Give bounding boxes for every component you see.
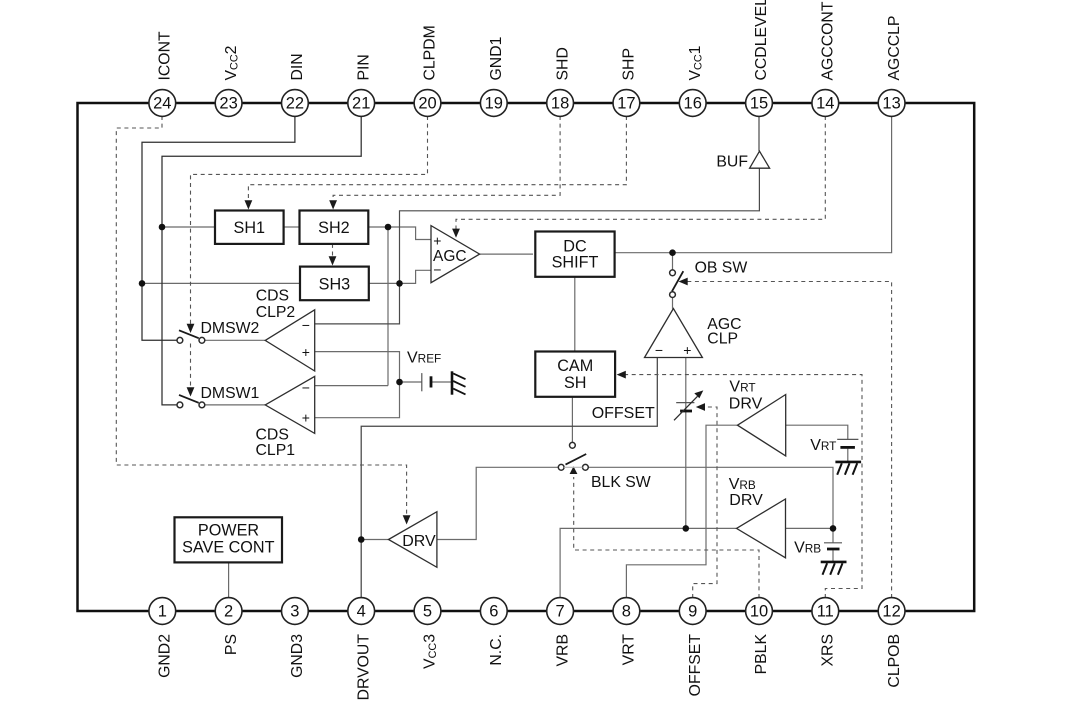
wire VRT DRV output to VRT capacitor (786, 425, 848, 439)
pin 2 PS (bottom) (215, 598, 242, 655)
block SH1 (215, 211, 284, 244)
wire AGC output to DC SHIFT (480, 253, 533, 255)
pin 12 CLPOB (bottom) (878, 598, 905, 688)
svg-text:OFFSET: OFFSET (687, 634, 704, 697)
pin 8 VRT (bottom) (613, 598, 640, 666)
dashed net PBLK: pin10 to BLK SW control (574, 477, 759, 598)
wire POWER SAVE CONT to pin2 PS (228, 563, 230, 598)
pin 16 VCC1 (top) (679, 45, 706, 116)
svg-text:VRB: VRB (729, 476, 756, 493)
variable capacitor OFFSET adjust (676, 402, 694, 404)
dashed link SH2 to SH3 clock (332, 244, 334, 257)
comparator CDS CLP1 (265, 376, 315, 433)
dashed net CLPDM continued to DMSW1 control (190, 344, 192, 389)
svg-text:GND3: GND3 (289, 634, 306, 678)
pin 17 SHP (top) (613, 48, 640, 116)
wire SH2 output step into AGC + input (368, 227, 431, 240)
svg-text:VRB: VRB (554, 634, 571, 666)
wire DRV output to DRVOUT rail (361, 539, 388, 541)
wire DIN net: pin22 down-left rail to SH3 input and DMSW2 left contact (142, 116, 295, 340)
wire BLK SW right contact to VRB rail (589, 467, 834, 543)
wire VRB DRV input (786, 527, 834, 529)
svg-text:GND2: GND2 (157, 634, 174, 678)
pin 11 XRS (bottom) (812, 598, 839, 667)
svg-text:CLP1: CLP1 (256, 442, 296, 459)
svg-text:10: 10 (750, 603, 768, 621)
svg-text:SHP: SHP (621, 48, 638, 80)
svg-text:GND1: GND1 (488, 36, 505, 80)
ground at VREF capacitor (451, 371, 454, 394)
wire OB SW bottom contact to AGC CLP apex (672, 298, 674, 309)
wire DMSW1 right contact to CDS CLP1 apex (205, 404, 265, 406)
svg-text:DIN: DIN (289, 53, 306, 80)
dashed net CLPOB: pin12 to OB SW control (687, 282, 892, 599)
switch DMSW2 (177, 337, 183, 343)
wire SH2 output vertical down to CDS CLP1 - input (387, 227, 389, 386)
dashed net OFFSET: pin9 to offset adjust arrow (693, 407, 717, 598)
svg-text:−: − (302, 380, 310, 396)
pin 19 GND1 (top) (480, 36, 507, 116)
svg-text:VRT: VRT (810, 437, 836, 454)
capacitor VRB (824, 542, 842, 544)
wire CDS CLP1 - input (315, 385, 388, 387)
capacitor VRT (837, 438, 858, 440)
arrowhead AGCCONT into AGC (452, 229, 460, 238)
node junction PIN/SH1 (159, 224, 166, 231)
svg-text:DMSW2: DMSW2 (201, 320, 260, 337)
block DC SHIFT (535, 232, 614, 277)
wire PIN net: pin21 down-left rail to SH1 input and DMSW1 left contact (162, 116, 361, 405)
arrowhead ICONT into DRV (403, 515, 411, 524)
svg-text:12: 12 (882, 603, 900, 621)
wire CCDLEVEL rail: BUF output left along top then down to CDS CLP2 - input (315, 168, 760, 324)
svg-text:23: 23 (219, 95, 237, 113)
svg-text:14: 14 (816, 95, 834, 113)
svg-text:13: 13 (882, 95, 900, 113)
pin 4 DRVOUT (bottom) (348, 598, 375, 701)
pin 18 SHD (top) (547, 47, 574, 116)
op-amp AGC (431, 226, 480, 283)
dashed net SHP: pin17 to SH1 clock (248, 116, 626, 201)
pin 24 ICONT (top) (149, 31, 176, 116)
svg-text:VRT: VRT (729, 379, 755, 396)
block SH3 (300, 267, 369, 301)
node junction VREF (396, 379, 403, 386)
pin 7 VRB (bottom) (547, 598, 574, 667)
svg-text:VRB: VRB (794, 539, 821, 556)
arrowhead SHP into SH1 (245, 200, 253, 209)
block CAM SH (535, 352, 615, 397)
svg-text:+: + (433, 233, 441, 249)
amp VRT DRV (738, 395, 786, 456)
node junction AGC CLP+/VRB (683, 525, 690, 532)
arrowhead XRS into CAM SH (617, 371, 626, 379)
switch BLK SW with throw contact from CAM SH (570, 442, 576, 448)
wire PIN branch into SH1 input (162, 226, 215, 228)
pin 21 PIN (top) (348, 54, 375, 116)
svg-text:8: 8 (622, 603, 631, 621)
node junction OB SW tap (669, 249, 676, 256)
wire SH3 output step into AGC - input (369, 270, 431, 283)
svg-text:SHD: SHD (554, 47, 571, 80)
svg-text:DRV: DRV (402, 533, 436, 550)
node junction SH2 out (385, 224, 392, 231)
pin 1 GND2 (bottom) (149, 598, 176, 678)
node junction DRVOUT (358, 536, 365, 543)
svg-text:AGCCLP: AGCCLP (886, 16, 903, 81)
arrowhead CLPDM onto DMSW1 (187, 387, 195, 396)
pin 13 AGCCLP (top) (878, 16, 905, 117)
svg-text:SH2: SH2 (318, 219, 350, 237)
svg-text:AGCCONT: AGCCONT (820, 1, 837, 80)
pin 23 VCC2 (top) (215, 46, 242, 117)
svg-text:21: 21 (352, 95, 370, 113)
svg-text:DMSW1: DMSW1 (201, 385, 260, 402)
svg-text:DRVOUT: DRVOUT (355, 634, 372, 701)
pin 10 PBLK (bottom) (746, 598, 773, 675)
dashed net ICONT: pin24 to DRV bias arrow (116, 116, 406, 515)
svg-text:−: − (655, 342, 663, 358)
node junction VRB cap (830, 525, 837, 532)
svg-text:9: 9 (688, 603, 697, 621)
svg-text:CCDLEVEL: CCDLEVEL (753, 0, 770, 81)
svg-text:VCC3: VCC3 (422, 634, 440, 669)
pin 6 N.C. (bottom) (480, 598, 507, 666)
svg-text:SH1: SH1 (234, 219, 266, 237)
amp VRB DRV (737, 499, 786, 558)
svg-text:VCC2: VCC2 (223, 46, 241, 81)
svg-text:+: + (683, 342, 691, 358)
svg-text:DRV: DRV (729, 492, 763, 509)
svg-text:22: 22 (286, 95, 304, 113)
svg-text:XRS: XRS (820, 634, 837, 666)
comparator CDS CLP2 (265, 310, 315, 371)
svg-text:PBLK: PBLK (753, 634, 770, 675)
wire AGC CLP - input down then left to DRVOUT rail and pin4 (361, 358, 657, 599)
svg-text:PIN: PIN (355, 54, 372, 80)
svg-text:ICONT: ICONT (157, 31, 174, 80)
svg-text:4: 4 (357, 603, 366, 621)
wire AGC CLP + input vertical through offset capacitor to VRB node (685, 358, 687, 529)
svg-text:OB SW: OB SW (695, 260, 748, 277)
svg-text:BUF: BUF (716, 153, 748, 170)
pin 9 OFFSET (bottom) (679, 598, 706, 697)
pin 22 DIN (top) (282, 53, 309, 116)
svg-text:1: 1 (158, 603, 167, 621)
node junction DIN/SH3 (139, 280, 146, 287)
svg-text:19: 19 (485, 95, 503, 113)
wire CDS CLP2 + input down VREF rail to CDS CLP1 + input (315, 352, 400, 418)
svg-text:VRT: VRT (621, 634, 638, 666)
arrowhead SHD into SH2 (329, 200, 337, 209)
arrowhead into SH3 (329, 256, 337, 265)
svg-text:POWER: POWER (198, 522, 259, 540)
svg-text:SHIFT: SHIFT (552, 253, 599, 271)
wire VRT DRV input down-left to pin8 VRT (626, 425, 737, 598)
svg-text:17: 17 (617, 95, 635, 113)
svg-text:15: 15 (750, 95, 768, 113)
dashed net CLPDM: pin20 to DMSW2 control (191, 116, 428, 325)
svg-text:16: 16 (684, 95, 702, 113)
svg-text:CDS: CDS (256, 427, 289, 444)
arrowhead CLPDM onto DMSW2 (187, 324, 195, 333)
capacitor VREF (421, 373, 423, 391)
amp DRV (389, 512, 437, 568)
pin 14 AGCCONT (top) (812, 1, 839, 116)
svg-text:−: − (302, 317, 310, 333)
dashed net AGCCONT: pin14 to AGC gain control (456, 116, 825, 229)
svg-text:SAVE CONT: SAVE CONT (182, 539, 274, 557)
svg-text:6: 6 (489, 603, 498, 621)
svg-text:24: 24 (153, 95, 171, 113)
svg-text:CDS: CDS (256, 287, 289, 304)
node junction SH3 out (396, 280, 403, 287)
pin 3 GND3 (bottom) (282, 598, 309, 678)
wire CAM SH bottom to BLK SW throw contact (571, 397, 573, 442)
svg-text:20: 20 (418, 95, 436, 113)
svg-text:SH3: SH3 (319, 275, 351, 293)
wire DMSW2 right contact to CDS CLP2 apex (205, 339, 265, 341)
wire VRB DRV output left to pin7 VRB (560, 528, 736, 598)
ground at VRB capacitor (821, 561, 847, 564)
wire VRT capacitor to ground (847, 449, 849, 462)
svg-text:BLK SW: BLK SW (591, 474, 651, 491)
wire VRB capacitor to ground (832, 550, 834, 562)
svg-text:DRV: DRV (729, 396, 763, 413)
svg-text:OFFSET: OFFSET (592, 405, 655, 422)
arrowhead OFFSET onto offset capacitor (696, 403, 705, 411)
wire DIN branch into SH3 input (142, 282, 300, 284)
svg-text:5: 5 (423, 603, 432, 621)
wire OB SW top contact stub (672, 253, 674, 270)
dashed net XRS: pin11 to CAM SH control (625, 375, 862, 598)
svg-text:SH: SH (564, 374, 587, 392)
svg-text:CAM: CAM (557, 357, 593, 375)
wire DRV input to BLK SW left contact (437, 467, 558, 539)
svg-text:VREF: VREF (407, 349, 441, 366)
buffer amp BUF (750, 151, 770, 168)
op-amp AGC CLP (645, 309, 703, 358)
arrowhead PBLK onto BLK SW (570, 466, 578, 474)
pin 20 CLPDM (top) (414, 25, 441, 116)
svg-text:+: + (302, 344, 310, 360)
svg-text:VCC1: VCC1 (687, 45, 705, 80)
svg-text:CLPDM: CLPDM (422, 25, 439, 80)
svg-text:PS: PS (223, 634, 240, 655)
svg-text:18: 18 (551, 95, 569, 113)
svg-text:+: + (302, 409, 310, 425)
pin 15 CCDLEVEL (top) (746, 0, 773, 116)
dashed net SHD: pin18 to SH2 clock (333, 116, 560, 201)
wire DC SHIFT output to pin13 AGCCLP with OB SW tap (615, 116, 892, 253)
block SH2 (300, 211, 369, 244)
svg-text:3: 3 (290, 603, 299, 621)
wire pin15 CCDLEVEL into BUF (758, 116, 760, 151)
arrowhead CLPOB onto OB SW (679, 278, 688, 286)
block POWER SAVE CONT (175, 517, 283, 562)
svg-text:7: 7 (556, 603, 565, 621)
svg-text:N.C.: N.C. (488, 634, 505, 666)
svg-text:CLP: CLP (707, 331, 738, 348)
switch DMSW1 (177, 402, 183, 408)
svg-text:2: 2 (224, 603, 233, 621)
wire DC SHIFT to CAM SH (574, 277, 576, 352)
wire VREF tap to capacitor (400, 381, 422, 383)
svg-text:CLP2: CLP2 (256, 304, 296, 321)
wire VREF capacitor to ground (432, 381, 451, 383)
ground at VRT capacitor (835, 461, 861, 464)
svg-text:CLPOB: CLPOB (886, 634, 903, 688)
IC package outline (78, 103, 975, 611)
svg-text:−: − (433, 262, 441, 278)
svg-text:11: 11 (817, 603, 834, 621)
wire SH1 output to SH2 input (284, 226, 300, 228)
pin 5 VCC3 (bottom) (414, 598, 441, 669)
switch OB SW (670, 270, 676, 276)
